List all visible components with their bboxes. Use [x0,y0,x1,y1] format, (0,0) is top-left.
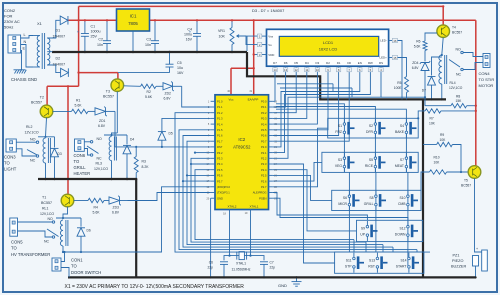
svg-text:XTAL2: XTAL2 [228,205,237,209]
svg-text:10n: 10n [145,43,151,47]
svg-text:C6: C6 [209,261,213,265]
wire +12V down to T4 [442,6,444,24]
svg-text:S7: S7 [400,158,404,162]
connector CON1 [52,258,61,271]
svg-text:P3.5: P3.5 [217,168,223,172]
svg-text:22p: 22p [207,266,213,270]
svg-text:15: 15 [393,56,397,60]
svg-text:12V,1CO: 12V,1CO [40,212,54,216]
wire bundle P1/P3 to keypad [175,113,430,252]
svg-text:D5: D5 [169,132,173,136]
svg-text:P1.6: P1.6 [217,134,223,138]
svg-text:16: 16 [393,39,397,43]
resistor R4 5.6K [74,200,88,202]
RST line [115,146,211,148]
svg-text:6.8V: 6.8V [112,211,120,215]
svg-text:P0.2: P0.2 [261,111,267,115]
svg-text:ZD4: ZD4 [412,61,418,65]
diode D2 1N4007 [61,68,69,77]
wire ZD2 to IC2 P1.1 [182,86,211,107]
svg-text:10K: 10K [440,138,447,142]
resistor R5 100E [398,58,407,77]
diode D5 [161,146,163,148]
ground vertical right keypad [422,99,424,277]
svg-text:CON5: CON5 [11,240,23,245]
wire IC2 GND pin to bottom rail [210,198,212,277]
svg-text:C1: C1 [91,25,96,29]
svg-text:S12: S12 [399,227,405,231]
svg-text:TO: TO [11,246,17,251]
svg-text:13: 13 [284,68,288,72]
svg-text:5.6K: 5.6K [75,104,83,108]
svg-text:RST: RST [368,264,375,268]
svg-text:BAKE: BAKE [395,130,405,134]
svg-text:230V AC: 230V AC [4,19,20,24]
ground rail relays left [38,178,136,180]
wire LCD data bus D7-D0 to P0 [273,73,275,102]
zener ZD4 6.8V [424,51,426,62]
svg-text:D0: D0 [347,61,351,65]
svg-text:PSEN: PSEN [259,196,266,200]
svg-text:C3: C3 [146,38,151,42]
wire N to X1 [21,45,33,68]
svg-text:D7: D7 [273,61,277,65]
svg-text:LED-: LED- [380,39,387,43]
svg-text:VDD: VDD [268,53,274,57]
svg-text:MOTOR: MOTOR [479,83,494,88]
svg-text:16V: 16V [186,38,193,42]
microcontroller IC2 AT89C52 [215,95,269,210]
svg-text:R4: R4 [94,206,98,210]
ground rail LCD branch [247,52,446,99]
wire +5V branch to IC2 EA/VPP [253,20,255,95]
svg-text:HEATER: HEATER [74,171,91,176]
wire LCD Vss to ground [247,36,257,51]
svg-text:RICE: RICE [365,164,374,168]
svg-text:NO: NO [97,137,103,141]
svg-text:ALE/PROG: ALE/PROG [253,191,267,195]
svg-text:RST: RST [217,145,223,149]
svg-text:P0.5: P0.5 [261,128,267,132]
svg-text:TO STIR: TO STIR [479,77,495,82]
svg-text:10K: 10K [219,35,226,39]
svg-text:P1.5: P1.5 [217,128,223,132]
switch S6 MICR [348,195,351,198]
ground rail top (0V) [52,51,247,53]
svg-text:P3.6: P3.6 [217,174,223,178]
svg-text:STP: STP [345,264,352,268]
keypad row 4 box [357,220,423,241]
svg-text:7805: 7805 [128,21,138,26]
switch S5 RICE [374,157,377,160]
svg-text:Vcc: Vcc [228,98,234,102]
wire LCD EN to P2.0 [273,73,360,147]
svg-text:P2.2: P2.2 [261,157,267,161]
svg-text:XTAL1: XTAL1 [250,205,259,209]
svg-text:P0.4: P0.4 [261,122,267,126]
diode D7 [432,57,442,75]
wire E to chassis ground [20,51,22,70]
svg-text:CHASIS GND: CHASIS GND [11,77,37,82]
svg-text:P2.6: P2.6 [261,179,267,183]
capacitor C4 100u 16V [196,20,198,33]
crystal XTAL1 11.0592MHz [230,255,251,257]
switch S11 STP [353,257,356,260]
connector CON2 [8,35,21,53]
svg-text:R10: R10 [434,156,440,160]
svg-text:1N4007: 1N4007 [53,63,66,67]
svg-text:(TXD)P3.1: (TXD)P3.1 [217,191,230,195]
svg-text:12V,1CO: 12V,1CO [449,86,463,90]
svg-text:PIEZO: PIEZO [452,259,463,263]
svg-text:S3: S3 [338,158,342,162]
svg-text:D2: D2 [326,61,330,65]
svg-text:BC557: BC557 [31,101,42,105]
svg-text:BUZZER: BUZZER [451,265,466,269]
svg-text:ZD1: ZD1 [99,119,106,123]
svg-text:S6: S6 [343,196,347,200]
svg-text:DFR: DFR [366,130,374,134]
svg-text:TO: TO [4,161,10,166]
svg-text:S4: S4 [400,124,404,128]
svg-text:LIGHT: LIGHT [4,167,17,172]
svg-text:S8: S8 [369,196,373,200]
keypad column feed lines [276,104,344,173]
zener ZD1 6.8V [88,110,95,112]
connector CON3 [6,139,16,152]
wire +5V down right edge to T5 [475,20,477,165]
wire LCD VDD to +5V [254,54,258,56]
svg-text:FOR: FOR [4,14,13,19]
svg-text:22p: 22p [270,266,276,270]
svg-text:6.8V: 6.8V [412,66,420,70]
resistor R8 15K [425,105,451,107]
svg-text:TO: TO [74,159,80,164]
svg-text:VEG: VEG [335,164,343,168]
svg-text:MICR: MICR [338,202,347,206]
svg-text:D3: D3 [316,61,320,65]
svg-text:T3: T3 [106,90,110,94]
keypad row feed wires from IC2 P2 [273,164,335,263]
diode D3 [54,137,56,147]
svg-text:D4: D4 [305,61,309,65]
svg-text:S9: S9 [361,227,365,231]
switch S2 DFR [374,123,377,126]
switch S14 START [408,257,411,260]
svg-text:P1.4: P1.4 [217,122,223,126]
svg-text:P3.2: P3.2 [217,151,223,155]
svg-text:D7: D7 [422,89,426,93]
wire ZD1 to RST line [114,111,116,146]
svg-text:R5: R5 [397,81,401,85]
relay RL4 12V 1CO [442,38,443,56]
svg-text:100u: 100u [184,33,192,37]
svg-text:P0.3: P0.3 [261,117,267,121]
switch S3 VEG [343,157,346,160]
svg-text:P1.3: P1.3 [217,117,223,121]
svg-text:P1.7: P1.7 [217,139,223,143]
wire C5 to emitter line [118,72,170,74]
wire LCD Vo to VR1 wiper [244,36,257,45]
wire X1 secondary bottom to D2 [47,65,60,73]
wire +12V top rail [79,5,444,7]
wire RL1 to door switch line [63,187,211,252]
svg-text:X1 = 230V AC PRIMARY TO 12V-0-: X1 = 230V AC PRIMARY TO 12V-0- 12V,500mA… [65,284,245,290]
svg-text:CON2: CON2 [4,8,16,13]
svg-text:P2.1: P2.1 [261,151,267,155]
keypad row 1 box [328,118,419,138]
relay RL1 contacts [18,221,53,223]
connector CON6 [75,139,85,151]
svg-text:GRILL: GRILL [74,165,87,170]
svg-text:16X2 LCD: 16X2 LCD [319,47,338,52]
svg-text:P3.4: P3.4 [217,162,223,166]
chassis ground symbol [14,69,26,71]
svg-text:100E: 100E [394,86,403,90]
svg-text:50Hz: 50Hz [4,25,13,30]
switch S9 UP [366,225,369,228]
svg-text:6.8V: 6.8V [98,124,106,128]
svg-text:C4: C4 [187,28,192,32]
svg-text:C5: C5 [177,61,182,65]
svg-text:BC557: BC557 [452,31,462,35]
svg-text:6.8V: 6.8V [164,97,172,101]
svg-text:P2.4: P2.4 [261,168,267,172]
svg-text:R1: R1 [76,99,80,103]
relay RL3 contacts [84,141,90,143]
resistor R10 10K [421,172,429,190]
svg-text:14: 14 [273,68,277,72]
capacitor C2 10n [106,20,108,40]
LCD pins 1-3 left [262,35,267,37]
wire weave extra 2 [280,87,352,89]
switch S7 MEAT [405,157,408,160]
transistor T1 BC557 [61,194,74,207]
svg-text:NO: NO [456,48,462,52]
wire +12V vertical [78,6,80,86]
svg-text:EN: EN [358,61,362,65]
wire ZD3 to IC2 P3.1 [128,193,211,201]
svg-text:RS: RS [379,61,383,65]
svg-text:VR1: VR1 [218,29,225,33]
svg-text:5.6K: 5.6K [93,211,101,215]
svg-text:11: 11 [305,68,308,72]
svg-text:Vo: Vo [268,43,272,47]
zener ZD3 6.8V [104,200,109,202]
riser wires into keypad row5 [353,240,355,252]
svg-text:EA/VPP: EA/VPP [248,98,259,102]
svg-text:T1: T1 [42,196,46,200]
svg-text:+: + [476,247,478,251]
wire ALE to keypad row4 [273,193,368,221]
svg-text:5.6K: 5.6K [414,45,422,49]
resistor R9 10K pullup [423,144,437,146]
regulator IC1 7805 [117,9,150,31]
svg-text:R3: R3 [142,160,146,164]
svg-text:R9: R9 [440,133,444,137]
svg-text:Vss: Vss [268,35,273,39]
resistor R2 5.6K [124,85,141,88]
transistor T4 BC557 [437,25,450,38]
svg-text:P1.0: P1.0 [217,100,223,104]
svg-text:5.6K: 5.6K [145,95,153,99]
resistor R3 8.2K [135,147,137,157]
svg-text:1000u: 1000u [91,30,101,34]
resistor R6 5.6K base [425,33,437,41]
wire LCD RW to P2.1 [273,73,371,153]
diode D6 [80,218,82,227]
switch S13 RST [376,257,379,260]
svg-text:ZD2: ZD2 [165,92,172,96]
svg-text:START: START [396,264,407,268]
wire T4 drive line [381,96,425,98]
resistor R1 5.6K [53,110,72,112]
svg-text:P2.3: P2.3 [261,162,267,166]
capacitor C3 10n [154,20,156,40]
connector CON5 [10,218,18,236]
svg-text:16V: 16V [177,71,184,75]
svg-text:BC557: BC557 [461,184,471,188]
svg-text:NC: NC [44,240,50,244]
wire +5V branch to IC2 Vcc [231,67,254,69]
svg-text:P2.7: P2.7 [261,185,267,189]
wire +5V rail IC1 output [150,19,476,21]
wire weave extra 1 [277,83,333,85]
svg-text:GRILL: GRILL [364,202,374,206]
svg-text:D2: D2 [56,57,61,61]
svg-text:P3.7: P3.7 [217,179,223,183]
svg-text:P2.5: P2.5 [261,174,267,178]
svg-text:L: L [24,33,26,37]
svg-text:R6: R6 [416,40,420,44]
wire LCD RS to P2.2 [273,73,381,159]
svg-text:(RXD)P3.0: (RXD)P3.0 [217,185,230,189]
wire stubs P3 join bundle [195,152,211,154]
svg-text:25V: 25V [91,35,98,39]
svg-text:P1.1: P1.1 [217,105,223,109]
svg-text:R2: R2 [147,90,151,94]
transistor T3 BC557 [111,79,124,92]
svg-text:RL1: RL1 [42,207,48,211]
svg-text:D3: D3 [58,152,62,156]
svg-text:RL2: RL2 [26,125,32,129]
relay RL1 coil [63,207,68,218]
svg-text:D1: D1 [337,61,341,65]
svg-text:R8: R8 [456,95,460,99]
wire T3 emitter feed [79,72,118,74]
svg-text:10K: 10K [429,122,436,126]
connector CON4 [483,54,490,68]
wire X1 secondary top to D1 [47,20,60,38]
keypad row 5 box [335,252,424,273]
svg-text:C2: C2 [98,38,103,42]
capacitor C7 22p [251,256,265,261]
svg-text:8.2K: 8.2K [142,165,150,169]
svg-text:HV TRANSFORMER: HV TRANSFORMER [11,252,50,257]
svg-text:1N4007: 1N4007 [53,35,66,39]
svg-text:S10: S10 [399,196,405,200]
switch S4 BAKE [405,123,408,126]
ground vertical left [135,179,137,277]
svg-text:S5: S5 [369,158,373,162]
zener ZD2 6.8V [156,85,163,87]
svg-text:T5: T5 [464,179,468,183]
switch S1 FRZ [343,123,346,126]
svg-text:BC557: BC557 [41,201,52,205]
svg-text:P0.6: P0.6 [261,134,267,138]
wire X1 center tap to ground [47,51,52,53]
transistor T5 BC557 [468,166,481,179]
svg-text:BC557: BC557 [103,95,114,99]
svg-text:GND: GND [278,283,287,288]
svg-text:CMB: CMB [398,202,406,206]
svg-text:S2: S2 [369,124,373,128]
svg-text:FRZ: FRZ [335,130,342,134]
svg-text:R7: R7 [430,117,434,121]
piezo buzzer PZ1 [475,178,482,252]
svg-text:10K: 10K [434,161,441,165]
wire PSEN to keypad row4 [273,198,408,220]
svg-text:AT89C52: AT89C52 [233,145,251,150]
svg-text:P0.7: P0.7 [261,139,267,143]
diode D1 1N4007 [60,16,68,25]
svg-text:S13: S13 [369,259,375,263]
svg-text:NC: NC [456,73,462,77]
svg-text:LED+: LED+ [379,56,387,60]
keypad row 3 box [332,190,421,210]
svg-text:12V,1CO: 12V,1CO [94,167,108,171]
svg-text:P0.0: P0.0 [261,100,267,104]
svg-text:RL4: RL4 [450,81,456,85]
svg-text:GND: GND [217,196,223,200]
svg-text:NO: NO [30,138,36,142]
LCD LED pins 16 15 [389,40,393,42]
svg-text:S11: S11 [346,259,352,263]
capacitor C1 1000u 25V [84,20,86,33]
svg-text:12V,1CO: 12V,1CO [25,131,39,135]
switch S8 GRILL [375,195,378,198]
capacitor C5 10u 16V [169,52,171,64]
svg-text:11.0592MHz: 11.0592MHz [232,268,251,272]
svg-text:TO: TO [71,264,77,269]
svg-text:D6: D6 [87,229,91,233]
svg-text:ZD3: ZD3 [113,206,120,210]
svg-text:MEAT: MEAT [395,164,404,168]
svg-text:D3 - D7 = 1N4007: D3 - D7 = 1N4007 [252,8,285,13]
svg-text:P3.3: P3.3 [217,157,223,161]
svg-text:IC2: IC2 [238,137,245,142]
relay RL2 contacts [16,141,36,143]
svg-text:15K: 15K [456,99,463,103]
svg-text:D1: D1 [56,29,61,33]
svg-text:LCD1: LCD1 [323,40,334,45]
wire X1 primary leads [33,35,40,37]
svg-text:CON4: CON4 [479,71,491,76]
svg-text:X1: X1 [37,21,43,26]
switch S12 DOWN [407,225,410,228]
ground rail bottom [68,276,476,278]
svg-text:DOWN: DOWN [395,233,406,237]
svg-text:CON1: CON1 [71,258,83,263]
svg-text:IC1: IC1 [130,14,137,19]
svg-text:NO: NO [48,217,54,221]
svg-text:S14: S14 [400,259,406,263]
svg-text:DOOR SWITCH: DOOR SWITCH [71,270,101,275]
svg-text:RW: RW [368,61,373,65]
svg-text:NC: NC [30,159,36,163]
capacitor C6 22p [224,256,230,261]
svg-text:NC: NC [97,157,103,161]
